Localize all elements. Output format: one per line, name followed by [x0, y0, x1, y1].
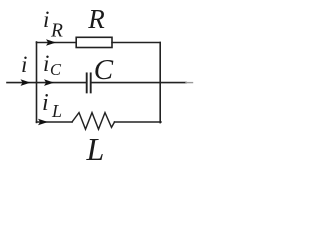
wire: middle rail (node to capacitor) [37, 82, 86, 84]
inductor L zigzag [72, 113, 115, 130]
svg-text:L: L [86, 131, 105, 167]
arrow: current iL on bottom rail [38, 119, 48, 126]
wire: incoming source wire (left of node) [7, 82, 37, 84]
svg-text:R: R [87, 4, 105, 34]
svg-text:i: i [21, 52, 27, 77]
wire: bottom rail left segment (bus to inductor) [37, 121, 73, 123]
arrow: current i (incoming) [21, 79, 31, 86]
wire: middle rail fading tip [186, 82, 193, 84]
svg-text:i: i [42, 90, 49, 116]
wire: left vertical bus [36, 42, 38, 122]
svg-text:L: L [51, 101, 62, 121]
resistor R [76, 37, 112, 47]
svg-text:i: i [43, 51, 49, 76]
wire: top rail left segment (bus to resistor) [37, 42, 77, 44]
svg-text:i: i [43, 7, 49, 32]
svg-text:R: R [50, 21, 63, 42]
svg-text:C: C [50, 60, 62, 79]
wire: middle rail (capacitor to right stub end) [92, 82, 186, 84]
arrow: current iR on top rail [46, 39, 56, 46]
arrow: current iC on middle rail [44, 79, 54, 86]
wire: right vertical bus [159, 43, 161, 123]
capacitor C right plate [90, 73, 92, 92]
wire: top rail right segment (resistor to right bus) [112, 42, 160, 44]
wire: bottom rail right segment (inductor to right bus) [115, 121, 161, 123]
capacitor C left plate [86, 73, 88, 92]
svg-text:C: C [94, 54, 114, 86]
